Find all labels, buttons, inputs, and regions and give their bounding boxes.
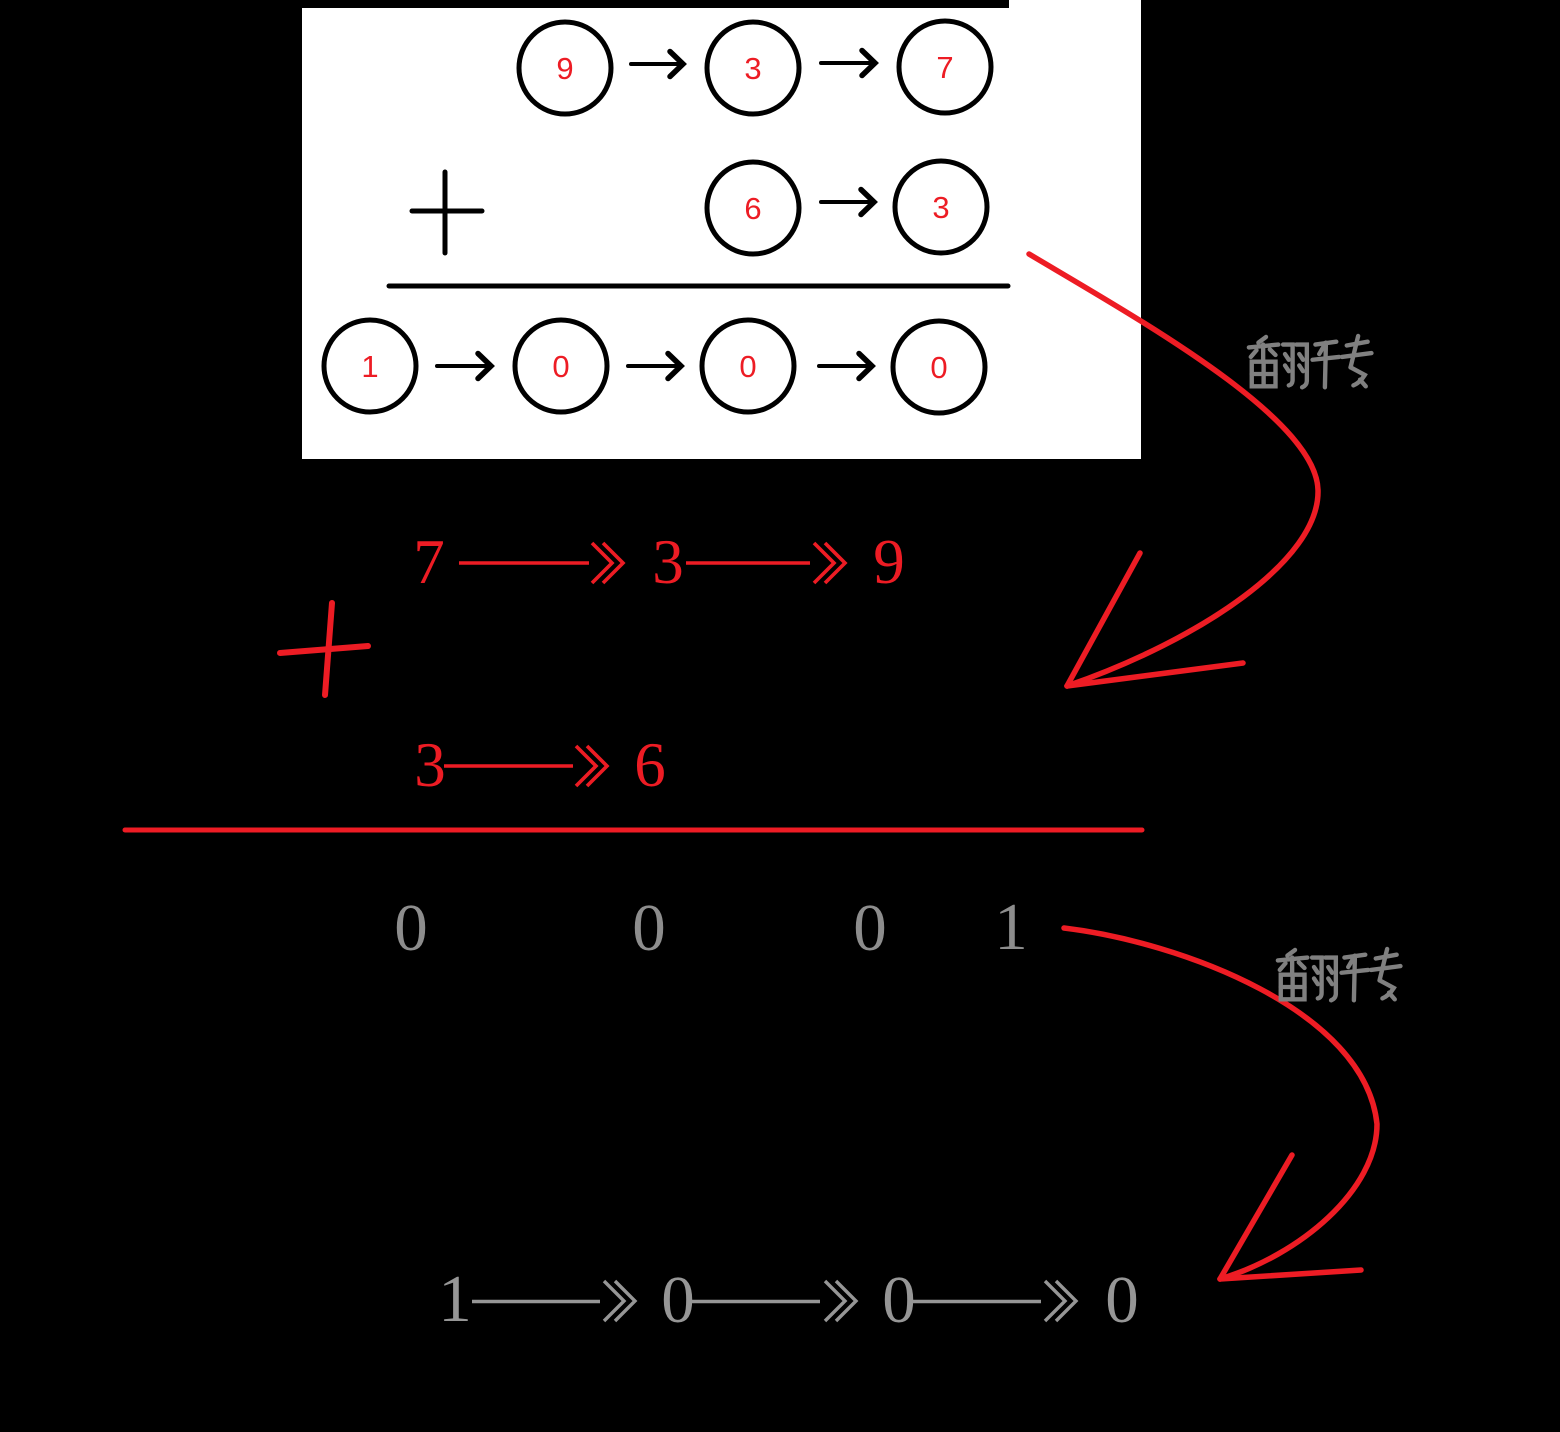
svg-text:0: 0 (661, 1263, 695, 1337)
svg-text:1: 1 (361, 349, 378, 384)
arrow 1-0 (437, 354, 491, 379)
node 3 top (707, 22, 799, 114)
gray chain lines and chevrons (472, 1281, 1076, 1321)
svg-text:0: 0 (853, 891, 887, 965)
svg-text:7: 7 (413, 527, 445, 597)
plus black (412, 172, 482, 253)
svg-text:6: 6 (634, 730, 666, 800)
arrow 0-0 a (628, 354, 681, 379)
red flip arrow 1 (1029, 254, 1318, 686)
svg-text:0: 0 (930, 350, 947, 385)
black top bar overlay (0, 0, 1009, 8)
char fan: 番 radical (1258, 337, 1266, 343)
arrow 3-7 (821, 51, 875, 76)
svg-text:0: 0 (394, 891, 428, 965)
svg-text:0: 0 (1105, 1263, 1139, 1337)
node 0 b (702, 320, 794, 412)
svg-text:3: 3 (744, 51, 761, 86)
sum line black (389, 284, 1008, 289)
red list row 1: 7 -> 3 -> 9 (413, 527, 905, 597)
svg-text:1: 1 (994, 890, 1028, 964)
white diagram panel (302, 0, 1141, 459)
node 7 (899, 21, 991, 113)
svg-text:9: 9 (556, 51, 573, 86)
red list row 2: 3 -> 6 (414, 730, 666, 800)
char fan: 羽 radical (1283, 345, 1293, 386)
svg-text:7: 7 (936, 50, 953, 85)
red chain line 7-3 (459, 543, 845, 583)
char zhuan (1313, 336, 1372, 387)
svg-text:9: 9 (873, 527, 905, 597)
svg-text:0: 0 (632, 891, 666, 965)
node 6 (707, 162, 799, 254)
svg-text:3: 3 (652, 527, 684, 597)
svg-text:3: 3 (414, 730, 446, 800)
node 9 (519, 22, 611, 114)
label fanzhuan 1 (1249, 336, 1372, 387)
red sum line (125, 828, 1142, 833)
red plus hand-drawn (280, 603, 368, 695)
svg-text:1: 1 (438, 1262, 472, 1336)
label fanzhuan 2 (1278, 949, 1401, 1000)
red flip arrow 2 (1064, 928, 1377, 1279)
arrow 0-0 b (819, 354, 872, 379)
gray result row 0 0 0 1 (394, 890, 1028, 965)
svg-text:6: 6 (744, 191, 761, 226)
svg-text:0: 0 (552, 349, 569, 384)
arrow 9-3 (631, 52, 683, 77)
arrow 6-3 (821, 190, 874, 215)
node 1 (324, 320, 416, 412)
red chain line 3-6 (444, 746, 607, 786)
node 0 a (515, 320, 607, 412)
node 3 mid (895, 161, 987, 253)
svg-text:0: 0 (882, 1263, 916, 1337)
svg-text:3: 3 (932, 190, 949, 225)
gray list row: 1 -> 0 -> 0 -> 0 (438, 1262, 1139, 1337)
svg-text:0: 0 (739, 349, 756, 384)
node 0 c (893, 321, 985, 413)
